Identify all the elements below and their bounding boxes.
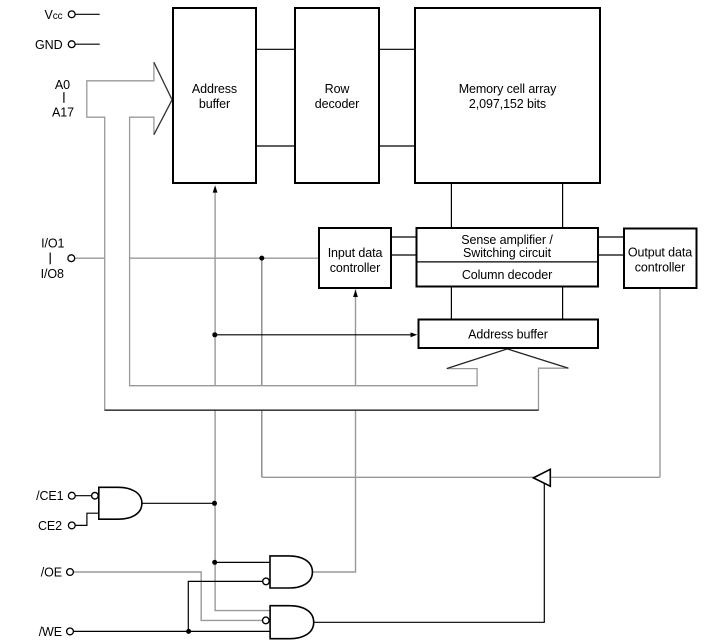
box Row decoder xyxy=(295,8,379,183)
address bus hollow arrow (A0-A17 into Address buffer, down and into column address buffer) xyxy=(87,62,569,410)
bubble U2 input xyxy=(263,578,270,585)
svg-text:/WE: /WE xyxy=(39,625,62,639)
svg-text:Memory cell array: Memory cell array xyxy=(459,82,557,96)
svg-text:controller: controller xyxy=(635,260,685,274)
bus arrowhead slope (left arrow upper) xyxy=(154,62,172,100)
box Input data controller xyxy=(319,228,391,288)
wire CE gate output xyxy=(142,502,215,504)
output driver triangle xyxy=(533,469,550,486)
wire chip-enable tap to write gate input xyxy=(215,561,270,563)
dash between A0 and A17 xyxy=(63,92,65,103)
connector row decoder to memory (lower) xyxy=(380,145,414,147)
wire vertical up to Output data controller xyxy=(659,289,661,477)
svg-text:CE2: CE2 xyxy=(38,519,62,533)
wire data branch vertical from I/O node down xyxy=(261,258,263,477)
wire /WE main xyxy=(73,630,270,632)
svg-text:Vcc: Vcc xyxy=(44,8,62,22)
connector input ctrl to sense amp (upper) xyxy=(392,236,416,238)
svg-text:buffer: buffer xyxy=(199,97,230,111)
AND gate U1 (/CE1,CE2) xyxy=(99,487,142,519)
wire data horizontal to output controller xyxy=(262,476,660,478)
box Address buffer (column) xyxy=(419,320,599,349)
svg-text:Column decoder: Column decoder xyxy=(462,268,552,282)
bubble U1 input xyxy=(92,492,99,499)
arrowhead up into Input data controller xyxy=(353,290,358,297)
wire chip-enable to column address buffer (arrow) xyxy=(215,334,411,336)
bus arrowhead slope (up arrow right) xyxy=(507,349,568,368)
wire Vcc stub xyxy=(75,13,100,15)
terminal /CE1 xyxy=(68,492,75,499)
AND gate U3 (read enable) xyxy=(270,606,314,639)
terminal /WE xyxy=(67,628,74,635)
connector memory to sense amp (left) xyxy=(450,184,452,227)
svg-text:A17: A17 xyxy=(52,106,74,120)
wire read gate output to output driver xyxy=(314,484,545,623)
terminal GND xyxy=(68,41,75,48)
wire /CE1 to gate bubble xyxy=(75,495,91,497)
bubble U3 input xyxy=(263,617,270,624)
box Address buffer (row) xyxy=(173,8,256,183)
bus channel bottom edge (dark) xyxy=(105,409,539,411)
connector memory to sense amp (right) xyxy=(562,184,564,227)
connector sense amp to output ctrl (upper) xyxy=(599,236,623,238)
svg-text:Input data: Input data xyxy=(328,246,383,260)
wire /WE riser to write gate bubble xyxy=(188,581,262,631)
svg-text:/OE: /OE xyxy=(41,566,62,580)
connector column decoder to address buffer (left) xyxy=(450,288,452,319)
box Output data controller xyxy=(624,229,697,289)
wire GND stub xyxy=(75,43,100,45)
svg-text:Switching circuit: Switching circuit xyxy=(463,246,552,260)
divider sense/column xyxy=(416,261,599,263)
junction chip-enable tap node xyxy=(212,560,217,565)
svg-text:decoder: decoder xyxy=(315,97,359,111)
svg-text:Address: Address xyxy=(192,82,237,96)
svg-text:Address buffer: Address buffer xyxy=(468,328,548,342)
svg-text:I/O1: I/O1 xyxy=(41,237,64,251)
svg-text:Output data: Output data xyxy=(628,245,692,259)
svg-text:Sense amplifier /: Sense amplifier / xyxy=(461,233,553,247)
junction /WE branch node xyxy=(186,629,191,634)
terminal Vcc xyxy=(68,11,75,18)
svg-text:I/O8: I/O8 xyxy=(41,267,64,281)
svg-text:2,097,152 bits: 2,097,152 bits xyxy=(469,97,546,111)
AND gate U2 (write enable) xyxy=(270,556,312,588)
junction I/O branch node xyxy=(259,256,264,261)
svg-text:controller: controller xyxy=(330,261,380,275)
wire write-enable vertical up to Input data controller xyxy=(312,290,355,573)
dash between I/O1 and I/O8 xyxy=(49,253,51,265)
terminal I/O xyxy=(68,255,75,262)
terminal /OE xyxy=(67,569,74,576)
arrowhead up into Address buffer xyxy=(213,185,218,192)
svg-text:GND: GND xyxy=(35,38,63,52)
connector input ctrl to sense amp (lower) xyxy=(392,254,416,256)
arrowhead right into column Address buffer xyxy=(411,332,418,337)
svg-text:A0: A0 xyxy=(55,78,70,92)
wire chip-enable vertical net (from CE gate up to Address buffer) xyxy=(215,189,270,611)
terminal CE2 xyxy=(68,522,75,529)
svg-text:Row: Row xyxy=(325,82,351,96)
wire I/O bus horizontal to Input data controller xyxy=(75,257,319,259)
junction chip-enable to column address buffer xyxy=(212,332,217,337)
connector addr buffer to row decoder (upper) xyxy=(257,48,294,50)
wire CE2 stepped into gate xyxy=(75,513,99,525)
bus arrowhead slope (up arrow left) xyxy=(447,349,507,369)
bus arrowhead slope (left arrow lower) xyxy=(154,100,172,135)
connector addr buffer to row decoder (lower) xyxy=(257,145,294,147)
box Memory cell array xyxy=(415,8,600,183)
wire /OE routing to read gate xyxy=(73,572,262,620)
junction CE gate output node xyxy=(212,501,217,506)
connector row decoder to memory (upper) xyxy=(380,48,414,50)
svg-text:/CE1: /CE1 xyxy=(36,489,64,503)
connector sense amp to output ctrl (lower) xyxy=(599,254,623,256)
connector column decoder to address buffer (right) xyxy=(562,288,564,319)
box Sense amplifier / Column decoder xyxy=(417,228,599,287)
